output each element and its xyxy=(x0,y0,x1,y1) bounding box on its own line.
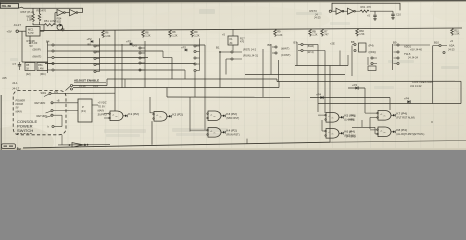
svg-text:POWER: POWER xyxy=(16,100,26,103)
svg-text:1.5K: 1.5K xyxy=(359,32,365,36)
svg-text:J4-6: J4-6 xyxy=(93,84,99,88)
svg-text:+P4: +P4 xyxy=(404,96,409,100)
svg-text:K2 (P2): K2 (P2) xyxy=(172,113,183,117)
svg-text:B5: B5 xyxy=(88,43,92,47)
svg-text:470: 470 xyxy=(42,8,47,12)
svg-text:(AL-RQH-RST)(ETH-PL): (AL-RQH-RST)(ETH-PL) xyxy=(396,132,424,136)
svg-text:(P1): (P1) xyxy=(351,115,356,118)
svg-text:B10: B10 xyxy=(434,40,439,44)
svg-text:FROM: FROM xyxy=(16,103,24,106)
svg-text:(RST) J4-2: (RST) J4-2 xyxy=(243,47,257,51)
svg-text:+5 VDC: +5 VDC xyxy=(98,101,107,105)
svg-text:RST (P-2): RST (P-2) xyxy=(21,10,34,14)
svg-text:FIG. 8B: FIG. 8B xyxy=(2,4,11,8)
svg-text:1.2K: 1.2K xyxy=(194,33,200,37)
svg-text:K3 (P2): K3 (P2) xyxy=(226,112,237,116)
svg-text:(SKIP): (SKIP) xyxy=(33,47,41,51)
svg-text:ADA: ADA xyxy=(449,43,455,47)
svg-text:K8 (P4): K8 (P4) xyxy=(396,128,407,132)
svg-text:(M5C RST): (M5C RST) xyxy=(226,116,239,120)
svg-text:5.7R: 5.7R xyxy=(28,31,34,35)
svg-text:(F1): (F1) xyxy=(81,109,86,113)
svg-text:1.5K: 1.5K xyxy=(454,32,460,36)
svg-text:(WAIT): (WAIT) xyxy=(281,47,290,51)
svg-text:K1 (P2): K1 (P2) xyxy=(128,112,139,116)
svg-text:R51: R51 xyxy=(44,19,49,23)
svg-text:[42]: [42] xyxy=(26,72,31,76)
svg-text:B1: B1 xyxy=(216,45,220,49)
svg-text:1.4M: 1.4M xyxy=(38,67,43,70)
svg-text:(CONT): (CONT) xyxy=(281,53,291,57)
svg-text:1.2K: 1.2K xyxy=(172,33,178,37)
svg-text:SWITCH: SWITCH xyxy=(17,128,33,133)
svg-text:(P4): (P4) xyxy=(369,44,374,48)
svg-text:TO 5V: TO 5V xyxy=(98,105,106,109)
svg-text:+P2: +P2 xyxy=(181,45,186,49)
svg-text:C10: C10 xyxy=(396,13,401,17)
svg-text:747: 747 xyxy=(324,32,329,36)
svg-text:+5V J4-40: +5V J4-40 xyxy=(410,48,422,52)
svg-text:LOW: LOW xyxy=(50,19,56,23)
svg-text:+P4: +P4 xyxy=(352,83,357,87)
svg-text:(FLT RST AL/M): (FLT RST AL/M) xyxy=(396,115,414,119)
svg-text:P: P xyxy=(82,105,84,109)
svg-text:(RUN-RST): (RUN-RST) xyxy=(226,132,239,136)
svg-text:+5V: +5V xyxy=(7,29,12,33)
svg-text:K4 (P2): K4 (P2) xyxy=(226,129,237,133)
svg-text:J4-23: J4-23 xyxy=(314,16,321,20)
svg-text:MC1: MC1 xyxy=(28,27,34,31)
svg-text:C7: C7 xyxy=(13,62,17,66)
svg-text:MAIN: MAIN xyxy=(98,109,105,113)
svg-text:+B: +B xyxy=(57,100,60,103)
svg-text:+P2: +P2 xyxy=(87,37,92,41)
svg-text:CONT/RESTART: CONT/RESTART xyxy=(412,80,434,84)
svg-text:J45: J45 xyxy=(2,76,7,80)
svg-text:1.2K: 1.2K xyxy=(277,33,283,37)
svg-text:RETURN: RETURN xyxy=(35,101,46,105)
svg-text:(RUN) J4-31: (RUN) J4-31 xyxy=(243,54,259,58)
svg-text:5V: 5V xyxy=(16,107,19,110)
svg-text:B8: B8 xyxy=(351,40,355,44)
svg-text:(+MN): (+MN) xyxy=(348,119,355,122)
svg-text:470: 470 xyxy=(367,5,372,9)
svg-text:SW1: SW1 xyxy=(41,91,47,95)
svg-text:J4-23: J4-23 xyxy=(448,48,455,52)
svg-text:1.2K: 1.2K xyxy=(312,33,318,37)
svg-text:J41 J4-32: J41 J4-32 xyxy=(410,84,422,88)
svg-text:+P4: +P4 xyxy=(316,93,321,97)
svg-text:B9: B9 xyxy=(393,40,397,44)
svg-text:902: 902 xyxy=(57,19,62,23)
svg-text:J4-17: J4-17 xyxy=(12,86,20,90)
svg-text:8u: 8u xyxy=(17,147,21,150)
svg-text:(MC): (MC) xyxy=(40,72,46,76)
svg-text:J4-1: J4-1 xyxy=(12,81,18,85)
svg-text:SUPPLY: SUPPLY xyxy=(98,113,108,117)
svg-text:B4: B4 xyxy=(46,40,50,44)
svg-text:((W4)): ((W4)) xyxy=(369,50,377,54)
svg-text:(P-RMN): (P-RMN) xyxy=(346,135,356,138)
svg-text:J4-27: J4-27 xyxy=(14,23,22,27)
svg-text:1.2K: 1.2K xyxy=(145,34,151,38)
svg-text:+2E: +2E xyxy=(330,41,335,45)
svg-text:J4-18: J4-18 xyxy=(79,84,86,88)
svg-text:(T): (T) xyxy=(349,131,352,134)
svg-text:ADJUST ENABLE: ADJUST ENABLE xyxy=(74,79,99,83)
svg-text:+P2: +P2 xyxy=(126,39,131,43)
svg-text:(WAIT): (WAIT) xyxy=(33,55,42,59)
svg-text:1K: 1K xyxy=(26,67,29,70)
svg-text:470: 470 xyxy=(240,41,245,44)
svg-text:K7 (P4): K7 (P4) xyxy=(396,112,407,116)
svg-text:R61: R61 xyxy=(361,5,366,9)
svg-text:1.6K: 1.6K xyxy=(105,34,111,38)
svg-text:1.5K: 1.5K xyxy=(27,18,33,22)
svg-text:MAIN: MAIN xyxy=(16,110,22,113)
svg-text:J4 J4-24: J4 J4-24 xyxy=(408,55,419,59)
svg-text:B-5: B-5 xyxy=(133,44,138,48)
